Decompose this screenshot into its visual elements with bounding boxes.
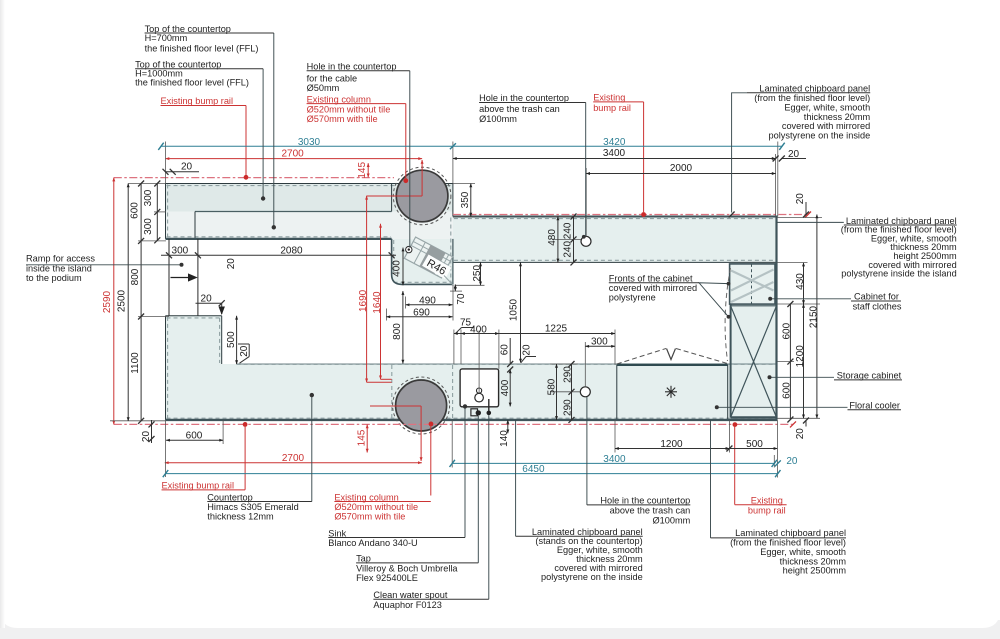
svg-text:thickness 12mm: thickness 12mm [207,512,274,522]
right band top inner dash [454,218,776,220]
X cabinet left thick edge [730,265,732,418]
svg-text:Ø520mm without tile: Ø520mm without tile [307,105,391,115]
svg-text:3420: 3420 [603,137,626,148]
svg-text:Blanco Andano 340-U: Blanco Andano 340-U [328,538,417,548]
red leader: existing bump rail top-mid [643,102,645,212]
mid cabinet top thick edge [617,364,728,366]
svg-text:bump rail: bump rail [748,505,786,515]
dim 290/290 [571,364,573,420]
svg-text:6450: 6450 [522,464,545,475]
svg-text:Ø520mm without tile: Ø520mm without tile [334,502,418,512]
right band bottom edge [453,261,777,263]
svg-text:Hole in the countertop: Hole in the countertop [479,93,569,103]
svg-text:Existing column: Existing column [334,492,398,502]
leader floral cooler [717,406,848,408]
right band left edge upper [452,184,454,217]
svg-text:600: 600 [130,202,141,219]
red 2590 dim [113,178,115,425]
R46 radius label [422,255,451,280]
leader tap [477,416,479,563]
dim 250 [480,262,482,285]
bump rail anchor dots [243,175,738,427]
svg-text:430: 430 [795,273,806,290]
svg-text:Existing bump rail: Existing bump rail [161,96,234,106]
svg-text:2080: 2080 [280,246,303,257]
trash hole top counter [581,236,591,246]
svg-text:polystyrene: polystyrene [609,292,656,302]
fillet bump piece below top band [392,239,453,285]
bottom band bottom inner dash [167,417,777,419]
svg-text:300: 300 [172,245,189,256]
svg-text:Existing column: Existing column [307,94,371,104]
svg-text:20: 20 [788,149,800,160]
teal 20 tick right bottom [775,460,781,466]
dim 400 sink v [509,370,511,407]
svg-text:1200: 1200 [795,345,806,368]
small down arrow at notch corner [219,307,225,316]
dim 300+2080 line [161,254,396,256]
dim 600/800/1100 chain [140,184,142,421]
svg-text:1200: 1200 [660,439,683,450]
svg-text:2150: 2150 [808,305,819,328]
red leader: existing bump rail bottom-left [244,424,246,489]
left block top inner dash [167,317,221,319]
red 145 bottom dim [366,424,368,452]
dim 20 top-left [166,171,200,173]
svg-text:3030: 3030 [298,137,321,148]
folding-front dashed V over mid cabinet [617,349,728,365]
leader laminated bottom right [710,420,712,538]
svg-text:240: 240 [562,222,573,239]
dim 350 [470,184,472,217]
svg-text:600: 600 [781,322,792,339]
left block right inner dash [219,318,221,363]
svg-text:Countertop: Countertop [207,492,252,502]
dim 20 sink leader [526,356,536,358]
leader fronts of cabinet [699,283,729,317]
svg-text:400: 400 [470,324,487,335]
svg-text:Ø570mm with tile: Ø570mm with tile [334,512,405,522]
svg-text:20: 20 [786,456,798,467]
svg-text:height 2500mm: height 2500mm [783,566,847,576]
bottom band top edge [237,363,777,365]
svg-text:Cabinet for: Cabinet for [854,292,899,302]
dim 500 notch [236,316,238,364]
clean water spout fixture [488,399,490,413]
svg-text:70: 70 [456,293,467,305]
dim 3400 bottom [452,462,774,464]
rotated dimension text [102,162,819,447]
bottom band bottom thick edge [166,419,778,421]
dim 600/600 right [789,304,791,420]
dim 400 sink top [454,333,461,335]
label laminated panel bottom right [730,528,846,576]
dim 20 left small [151,420,153,443]
leader ramp [26,264,182,266]
svg-text:3400: 3400 [603,148,626,159]
svg-text:to the podium: to the podium [26,273,82,283]
svg-text:bump rail: bump rail [593,103,631,113]
leader sink [464,406,466,537]
cabinet right thick edge [775,217,777,420]
top band bottom inner dash [167,236,392,238]
svg-text:Ø100mm: Ø100mm [653,515,691,525]
svg-text:300: 300 [143,189,154,206]
ramp corridor walls [169,239,198,316]
svg-text:20: 20 [141,431,152,443]
leader hole above trash top [585,103,587,237]
ramp direction arrow [171,277,190,279]
left block left edge [165,316,167,420]
svg-text:2590: 2590 [102,290,113,313]
dim 2150 [816,215,818,419]
svg-text:20: 20 [795,193,806,205]
dim 690 [386,316,452,318]
svg-text:Ø570mm with tile: Ø570mm with tile [307,114,378,124]
svg-text:240: 240 [562,241,573,258]
label laminated panel bottom mid [532,527,643,582]
svg-text:1050: 1050 [509,298,520,321]
mid cabinet left edge [616,365,618,420]
leader cabinet staff [769,298,851,300]
svg-text:490: 490 [419,295,436,306]
top counter band upper strip [166,184,453,212]
tap fixture bracket [471,409,478,416]
svg-text:above the trash can: above the trash can [479,104,560,114]
counter divider line [195,211,392,213]
label hole above trash bottom [600,496,690,526]
leader storage cabinet [770,376,835,378]
dim 1050 [520,262,522,362]
dim 1200 right [803,304,805,418]
svg-text:inside the island: inside the island [26,263,92,273]
svg-text:690: 690 [413,307,430,318]
svg-text:Existing: Existing [593,93,625,103]
svg-text:3400: 3400 [603,454,626,465]
dim 6450 [166,473,778,475]
svg-text:250: 250 [472,265,483,282]
dim 2590/2500 chain: 2500 [127,184,129,422]
folding-front V marker [667,349,676,360]
leader hole for cable [408,71,411,248]
existing column top: column circle [396,170,448,222]
dim 600 bottom-left [166,439,223,441]
right band top thick edge [453,216,778,218]
svg-text:350: 350 [460,191,471,208]
X cabinet bottom thick edge [731,416,777,418]
ramp step vertical [194,212,196,239]
dim 400 bump [402,248,404,286]
existing column top: tile dashed circle [393,167,451,225]
left block left inner dash [167,317,169,419]
mid cabinet right edge [727,365,729,420]
dim 3030+3420 line [161,145,782,147]
svg-text:Hole in the countertop: Hole in the countertop [600,496,690,506]
dim 70 [454,284,456,291]
svg-text:800: 800 [392,323,403,340]
left block right edge [221,316,223,364]
red 145 top dim [367,163,369,177]
svg-text:300: 300 [143,218,154,235]
svg-text:1690: 1690 [358,289,369,312]
dim 480 [557,217,559,263]
svg-text:145: 145 [357,429,368,446]
svg-text:20: 20 [226,258,237,270]
dim 1200 bottom [615,448,729,450]
bottom band left dashed vertical at bump [391,365,393,419]
red leader: existing bump rail bottom-right [734,425,736,505]
bump left inner dash [393,240,395,275]
mirror hatch strokes [731,270,774,303]
bump rail end ticks [805,212,811,218]
X brace diagonal 2 [731,306,777,418]
red 1690 dim [366,196,368,382]
svg-text:the finished floor level (FFL): the finished floor level (FFL) [135,78,249,88]
svg-text:Flex 925400LE: Flex 925400LE [356,573,418,583]
svg-text:Ø50mm: Ø50mm [307,83,340,93]
svg-text:500: 500 [226,331,237,348]
red leader: existing bump rail top-left [245,106,247,176]
leader H=1000 [262,69,264,199]
svg-text:145: 145 [357,162,368,179]
dim 20 band edge leader [238,343,249,345]
bump rail top-left [114,177,394,179]
dim 500 bottom [729,448,777,450]
right band bottom inner dash [454,259,776,261]
svg-text:Sink: Sink [328,528,346,538]
leader hole above trash bottom [586,397,588,505]
red 1640 dim [380,224,382,379]
svg-text:20: 20 [239,345,250,357]
svg-text:20: 20 [522,344,533,356]
existing column bottom: column circle [396,380,447,431]
svg-text:480: 480 [547,229,558,246]
svg-text:400: 400 [391,260,402,277]
label laminated panel top-right [754,84,870,141]
svg-text:1100: 1100 [130,352,141,374]
bump right edge [452,239,454,285]
bump bottom inner dash [394,281,452,283]
dim 2000 [586,173,775,175]
leader laminated right (FFL island) [777,221,844,223]
svg-text:Aquaphor F0123: Aquaphor F0123 [373,600,441,610]
white card with rounded bottom corners [0,600,1000,628]
upper strip right end line [391,184,393,212]
red drop to top column centre [421,160,423,196]
label laminated panel right island [841,216,957,279]
top band left inner dash [167,185,169,238]
right counter band [453,217,778,263]
svg-text:20: 20 [181,161,193,172]
leader clean water spout [488,415,490,599]
dim 490 [406,304,453,306]
dim 300 trash [585,345,615,347]
top band bottom thick edge [166,238,392,240]
left page edge shade [0,0,5,628]
svg-text:60: 60 [500,344,511,356]
tilted R46 detail rectangle [404,237,452,278]
bottom band top inner dash [237,363,777,365]
svg-text:polystyrene on the inside: polystyrene on the inside [769,131,871,141]
leader laminated bottom mid [515,420,517,536]
bump outline [392,239,453,285]
dim 20 notch top leader [196,302,222,304]
dim 20 top-right ext [781,158,806,160]
top counter band lower strip [166,212,453,239]
svg-text:staff clothes: staff clothes [853,301,902,311]
X-cabinet fill [731,265,777,418]
svg-text:H=700mm: H=700mm [145,33,188,43]
svg-text:75: 75 [460,317,472,328]
svg-text:Existing bump rail: Existing bump rail [162,481,235,491]
leader dots [180,196,773,409]
mirror fronts box [730,264,775,304]
svg-text:Fronts of the cabinet: Fronts of the cabinet [609,274,693,284]
dim 20 right bottom [805,420,807,427]
dim 75 leader [462,327,474,329]
svg-text:Tap: Tap [356,554,371,564]
red horiz through bottom column centre [370,405,421,407]
svg-text:for the cable: for the cable [307,73,358,83]
svg-text:2500: 2500 [117,289,128,312]
dim 240/240 [573,217,575,263]
red leader: existing column bottom [430,424,432,496]
sink [460,369,499,407]
svg-text:2700: 2700 [281,148,304,159]
svg-text:2700: 2700 [282,453,305,464]
leader H=700 [273,33,275,227]
svg-text:400: 400 [500,379,511,396]
cable hole small circle [406,246,412,252]
existing column bottom: tile dashed circle [393,377,450,434]
svg-text:140: 140 [499,430,510,447]
svg-text:290: 290 [562,399,573,416]
svg-text:Hole in the countertop: Hole in the countertop [307,62,397,72]
red leader: existing column top [405,104,407,179]
svg-text:Floral cooler: Floral cooler [849,400,900,410]
svg-text:polystyrene on the inside: polystyrene on the inside [541,572,643,582]
top band top inner dash [167,185,453,187]
svg-text:2000: 2000 [670,163,693,174]
svg-text:600: 600 [781,382,792,399]
red horiz through top column centre [367,195,423,197]
left island block [166,316,222,420]
bump rail bottom [114,423,793,425]
svg-text:500: 500 [746,439,763,450]
svg-text:Clean water spout: Clean water spout [373,590,447,600]
leader laminated top-right [732,93,747,213]
svg-text:Storage cabinet: Storage cabinet [837,371,902,381]
svg-text:800: 800 [130,268,141,285]
svg-text:above the trash can: above the trash can [610,506,691,516]
top band left edge [165,184,167,239]
svg-text:Villeroy & Boch Umbrella: Villeroy & Boch Umbrella [356,563,458,573]
dim 1225 [499,333,615,335]
svg-text:Ø100mm: Ø100mm [479,114,517,124]
svg-text:600: 600 [186,431,203,442]
leader countertop [311,395,313,501]
bottom band right dashed vertical at sink bump [452,365,454,419]
svg-text:Ramp for access: Ramp for access [26,254,95,264]
bump rail top-right [453,214,808,216]
svg-text:20: 20 [201,294,213,305]
svg-text:290: 290 [562,366,573,383]
tick at laminated top-right leader end [729,212,735,218]
svg-text:polystyrene inside the island: polystyrene inside the island [841,269,956,279]
X cabinet top line [731,305,777,307]
dim 580 [556,364,558,420]
svg-text:300: 300 [591,337,608,348]
left block top edge [166,315,222,317]
bump right inner dash [450,218,452,284]
svg-text:Himacs S305 Emerald: Himacs S305 Emerald [207,502,298,512]
teal mid tick on 3030/3420 [450,143,456,149]
top band top edge [166,183,453,185]
dim 300/300 chain [156,184,158,241]
trash hole bottom counter [580,387,590,397]
chain slash ticks [138,156,809,452]
dim 800 mid [402,291,404,363]
svg-text:1640: 1640 [372,291,383,314]
dim 20 right top [805,202,807,215]
svg-text:580: 580 [547,378,558,395]
svg-text:1225: 1225 [545,324,568,335]
dim 3400 top [453,158,776,160]
svg-text:the finished floor level (FFL): the finished floor level (FFL) [145,43,259,53]
svg-text:20: 20 [795,428,806,440]
asterisk symbol in mid cabinet [665,386,677,398]
dim 140 [507,420,509,433]
door swing dashed line [725,268,730,361]
bottom counter band [166,364,778,420]
bottom gray strip [0,620,1000,639]
dim 60 sink [509,338,511,364]
dim 430 right [803,263,805,304]
X brace diagonal 1 [731,306,777,418]
red 2700 bottom dim [165,462,422,464]
svg-text:Existing: Existing [751,496,783,506]
tap hole circle [475,393,484,402]
red 2700 top dim [166,158,423,160]
red drop from bottom column centre [420,406,422,461]
